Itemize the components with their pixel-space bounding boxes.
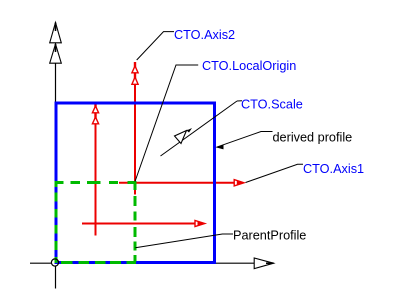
CTO axis2 red vertical arrow bbox=[132, 62, 138, 195]
parent axis2 red vertical arrow bbox=[92, 103, 98, 236]
derived profile leader line bbox=[217, 132, 273, 148]
CTO.Axis1 leader line bbox=[246, 164, 303, 182]
parent profile green dashed square bbox=[56, 181, 137, 263]
CTO.Scale leader line bbox=[161, 101, 238, 156]
ParentProfile leader line bbox=[135, 234, 233, 248]
svg-text:derived profile: derived profile bbox=[273, 131, 353, 145]
svg-text:ParentProfile: ParentProfile bbox=[233, 229, 306, 243]
derived profile blue square bbox=[56, 103, 215, 263]
CTO axis1 red horizontal arrow bbox=[119, 180, 244, 186]
world X axis arrowhead bbox=[254, 258, 273, 269]
CTO.LocalOrigin leader line bbox=[135, 65, 198, 182]
svg-text:CTO.LocalOrigin: CTO.LocalOrigin bbox=[202, 59, 296, 73]
CTO.Axis2 leader line bbox=[137, 32, 174, 60]
world Y axis arrowhead 1 bbox=[50, 23, 62, 43]
svg-text:CTO.Axis2: CTO.Axis2 bbox=[174, 28, 235, 42]
origin marker circle bbox=[51, 259, 58, 266]
svg-text:CTO.Scale: CTO.Scale bbox=[241, 98, 303, 112]
origin crosshair left bbox=[30, 262, 52, 264]
svg-text:CTO.Axis1: CTO.Axis1 bbox=[303, 162, 364, 176]
world X axis bbox=[56, 262, 274, 264]
CTO.Scale direction arrow glyph bbox=[175, 128, 193, 144]
world Y axis arrowhead 2 bbox=[50, 44, 62, 63]
derived profile leader arrowhead bbox=[216, 145, 224, 150]
origin crosshair down bbox=[55, 266, 57, 289]
world Y axis bbox=[55, 23, 57, 263]
parent axis1 red horizontal arrow bbox=[82, 220, 205, 226]
